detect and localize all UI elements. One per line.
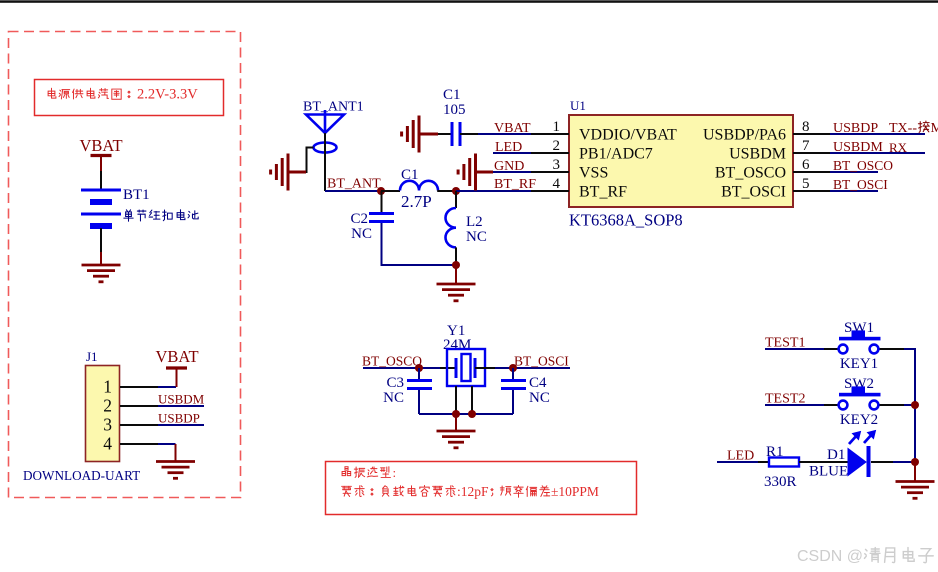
svg-text:2.7P: 2.7P [401,192,432,211]
svg-text:1: 1 [553,119,561,135]
svg-text:C2: C2 [350,211,368,227]
pin 4 wire [120,443,158,445]
junction [911,401,919,409]
svg-text:BT_OSCO: BT_OSCO [715,165,786,182]
svg-text:VDDIO/VBAT: VDDIO/VBAT [579,127,677,144]
ground (GND pin) [458,154,475,191]
svg-text:4: 4 [103,434,112,454]
svg-text:GND: GND [494,159,524,174]
svg-text:PB1/ADC7: PB1/ADC7 [579,146,653,163]
svg-text:BT_ANT: BT_ANT [327,177,381,192]
wire (crystal to BT_OSCI) [495,367,570,369]
junction [911,458,919,466]
wire (BT_OSCI) [830,190,878,192]
svg-text:TEST2: TEST2 [765,392,805,407]
svg-text:BT_OSCO: BT_OSCO [362,354,422,369]
svg-text:R1: R1 [766,444,784,460]
wire (USBDP) [830,133,925,135]
svg-text:NC: NC [466,229,487,245]
wire (BT_RF to pin4) [456,190,531,192]
junction [509,364,517,372]
svg-text:C3: C3 [386,375,404,391]
svg-text:VBAT: VBAT [79,136,122,155]
wire (LED net) [717,461,758,463]
power section dashed box [9,32,241,498]
svg-text:8: 8 [802,119,810,135]
svg-text:BLUE: BLUE [809,464,848,480]
svg-text:BT_OSCI: BT_OSCI [514,354,569,369]
svg-text:KT6368A_SOP8: KT6368A_SOP8 [569,211,683,230]
svg-text:D1: D1 [827,447,845,463]
svg-text:NC: NC [383,390,404,406]
svg-text:5: 5 [802,176,810,192]
inductor L2 NC [455,191,457,208]
svg-text:L2: L2 [466,214,483,230]
svg-text:J1: J1 [86,349,98,364]
wire (antenna to ground) [305,148,314,173]
svg-text:USBDM: USBDM [729,146,786,163]
capacitor C3 NC [418,368,420,380]
pin 3 / pin 6 [531,171,569,173]
svg-text:VBAT: VBAT [155,347,198,366]
svg-text:2: 2 [553,138,561,154]
wire (BT_OSCO) [830,171,878,173]
svg-text:BT_OSCI: BT_OSCI [833,177,888,192]
junction [468,410,476,418]
svg-text:BT_OSCO: BT_OSCO [833,158,893,173]
svg-text:USBDM: USBDM [833,140,883,155]
note box: power supply range 2.2V-3.3V [35,80,224,116]
svg-text:TEST1: TEST1 [765,336,805,351]
ground (C1) [402,116,419,153]
crystal symbol [440,367,456,369]
svg-text:C4: C4 [529,375,547,391]
svg-text:BT_RF: BT_RF [494,177,536,192]
svg-text:6: 6 [802,157,810,173]
svg-text:105: 105 [443,102,466,118]
wire [438,133,452,135]
wire [382,223,457,265]
svg-text::12pF: :12pF [457,484,489,499]
svg-text:330R: 330R [764,474,797,490]
svg-text:NC: NC [351,226,372,242]
wire [871,461,893,463]
pin 1 / pin 8 [531,133,569,135]
crystal pin wires [455,386,457,414]
wire [493,171,531,173]
svg-text:7: 7 [802,138,810,154]
ground (keys and LED) [914,462,916,482]
svg-text:LED: LED [495,140,522,155]
svg-text:BT_OSCI: BT_OSCI [721,184,786,201]
junction [377,187,385,195]
resistor R1 330R [758,461,769,463]
wire (TEST2) [765,404,824,406]
svg-text:VSS: VSS [579,165,608,182]
top border line [0,0,938,3]
svg-text:USBDP: USBDP [833,121,878,136]
svg-text:2.2V-3.3V: 2.2V-3.3V [137,87,198,103]
pin 1 wire [120,386,158,388]
svg-text::: : [393,465,397,480]
svg-text:3: 3 [103,415,112,435]
junction [415,364,423,372]
svg-text:VBAT: VBAT [494,121,531,136]
svg-text:±10PPM: ±10PPM [551,484,599,499]
svg-text:C1: C1 [443,87,461,103]
svg-text:1: 1 [103,377,112,397]
junction [452,410,460,418]
wire (antenna stem) [324,133,326,191]
wire [100,171,102,190]
wire BT_ANT node [325,190,381,192]
junction [452,261,460,269]
svg-text:BT_RF: BT_RF [579,184,627,201]
svg-text:USBDM: USBDM [158,392,205,407]
pin 4 / pin 5 [531,190,569,192]
wire (BT_OSCO to crystal) [363,367,440,369]
pin 3 wire [120,424,158,426]
svg-text:LED: LED [727,449,754,464]
pin 2 wire [120,405,158,407]
wire [460,133,478,135]
wire (USBDM) [830,152,925,154]
svg-text:TX--: TX-- [889,121,917,136]
capacitor C4 NC [512,368,514,380]
svg-text:2: 2 [103,396,112,416]
pin 2 / pin 7 [531,152,569,154]
svg-text:3: 3 [553,157,561,173]
wire (TEST1) [765,348,824,350]
wire [799,461,848,463]
ground (crystal) [455,414,457,431]
svg-text:BT1: BT1 [123,187,150,203]
svg-text:U1: U1 [570,98,586,113]
wire [100,228,102,252]
svg-text:BT_ANT1: BT_ANT1 [303,100,364,115]
svg-text:KEY1: KEY1 [840,356,878,372]
svg-text:MCU: MCU [931,121,938,136]
ground (antenna) [288,171,306,174]
capacitor C2 NC [381,191,383,213]
svg-text:NC: NC [529,390,550,406]
wire (LED net) [493,152,531,154]
svg-text:KEY2: KEY2 [840,412,878,428]
ground (matching network) [455,265,457,284]
svg-text:DOWNLOAD-UART: DOWNLOAD-UART [23,468,140,483]
ground (battery) [100,252,102,265]
wire (crystal bottom rail) [419,413,513,415]
ground (J1) [175,444,177,462]
wire (keys to ground rail) [914,348,916,462]
svg-text:CSDN @: CSDN @ [797,548,863,565]
svg-text:4: 4 [553,176,561,192]
battery BT1 [81,190,121,226]
note box: crystal selection [326,462,637,515]
svg-text:USBDP/PA6: USBDP/PA6 [703,127,786,144]
junction [452,187,460,195]
svg-text:USBDP: USBDP [158,411,200,426]
svg-text:RX: RX [889,140,908,155]
label: coin cell battery [124,210,133,221]
